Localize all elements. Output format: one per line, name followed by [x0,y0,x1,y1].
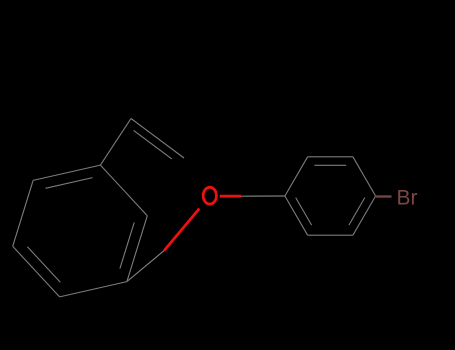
bond C1 to O, carbon-side gray half [127,251,164,282]
left ring inner double-bond line C3-C4 [46,178,93,189]
left benzene ring edge C3-C4 [33,165,100,180]
left ring inner double-bond line C5-C6 [27,247,60,282]
bond O to right ring, oxygen-side red half [220,195,241,198]
oxygen atom O [203,187,216,204]
right benzene ring top edge CR2-CR3 [308,156,353,158]
right benzene ring edge CR4-CR5 (left vertex to bottom-left) [285,196,308,235]
right benzene ring edge CR1-CR2 (right vertex to top-right) [353,157,376,196]
right benzene ring bottom edge CR5-CR6 [308,234,353,236]
left benzene ring edge C4-C5 [13,180,33,246]
svg-text:Br: Br [397,187,418,210]
left benzene ring edge C1-C2 [127,216,147,282]
right benzene ring edge CR6-CR1 (bottom-right to right vertex) [353,196,376,235]
left benzene ring edge C2-C3 [100,165,147,216]
vinyl double bond outer line [131,119,184,159]
bond C1 to O, oxygen-side red half [164,209,199,251]
right ring inner double-bond line bottom-right edge [349,198,365,226]
right benzene ring edge CR3-CR4 (top-left to left vertex) [285,157,308,196]
right ring inner double-bond line top edge [314,164,346,166]
left ring inner double-bond line C1-C2 [120,223,134,269]
vinyl double bond inner line [134,130,172,159]
left benzene ring edge C6-C1 [60,282,127,297]
bond O to right ring, carbon-side gray half [241,195,285,197]
left benzene ring edge C5-C6 [13,246,60,297]
bond right ring to Br [375,195,392,197]
right ring inner double-bond line bottom-left edge [296,198,312,226]
substituent bond ring C3 to vinyl apex [100,119,131,166]
